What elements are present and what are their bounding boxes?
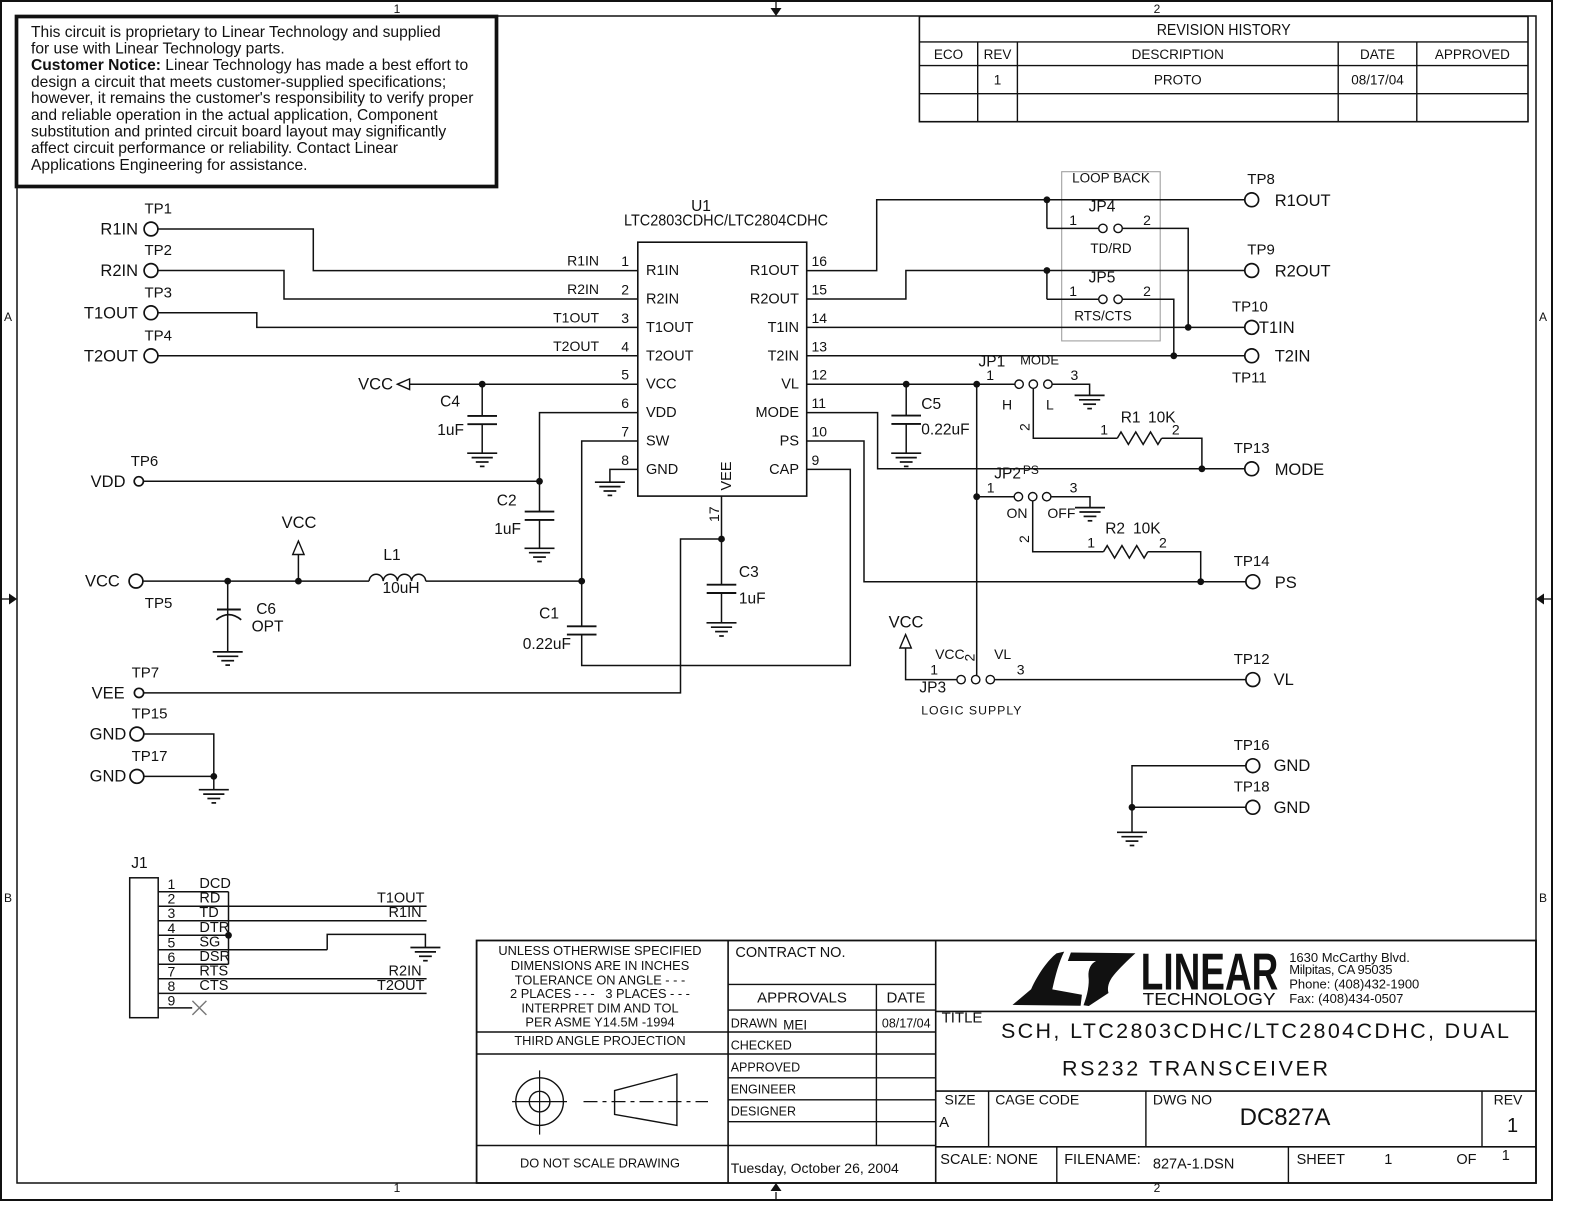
svg-text:DATE: DATE: [1360, 47, 1395, 62]
svg-text:OFF: OFF: [1047, 505, 1075, 521]
svg-text:H: H: [1002, 397, 1012, 413]
svg-text:DO NOT SCALE DRAWING: DO NOT SCALE DRAWING: [520, 1156, 680, 1171]
svg-text:1: 1: [1069, 212, 1077, 228]
svg-text:DIMENSIONS ARE IN INCHES: DIMENSIONS ARE IN INCHES: [511, 958, 689, 973]
svg-text:1: 1: [1069, 283, 1077, 299]
svg-text:1: 1: [1384, 1152, 1392, 1168]
svg-text:TP10: TP10: [1232, 299, 1268, 316]
svg-text:CHECKED: CHECKED: [731, 1039, 792, 1053]
svg-text:08/17/04: 08/17/04: [882, 1017, 931, 1031]
svg-text:PS: PS: [1023, 463, 1039, 477]
svg-text:DWG NO: DWG NO: [1153, 1091, 1212, 1107]
svg-text:SCALE:: SCALE:: [940, 1152, 992, 1168]
svg-text:2: 2: [961, 654, 977, 662]
svg-text:2: 2: [1172, 421, 1180, 437]
svg-text:INTERPRET DIM AND TOL: INTERPRET DIM AND TOL: [521, 1001, 678, 1016]
svg-text:08/17/04: 08/17/04: [1351, 73, 1404, 88]
svg-text:TP16: TP16: [1234, 737, 1270, 754]
svg-text:GND: GND: [90, 768, 127, 786]
svg-text:VL: VL: [994, 646, 1011, 662]
svg-text:ENGINEER: ENGINEER: [731, 1083, 796, 1097]
svg-text:1uF: 1uF: [437, 422, 464, 439]
svg-text:R1IN: R1IN: [389, 905, 422, 921]
svg-text:R2IN: R2IN: [567, 281, 599, 297]
svg-text:R2IN: R2IN: [646, 292, 679, 308]
svg-text:TP3: TP3: [145, 284, 173, 301]
svg-text:VCC: VCC: [646, 377, 677, 393]
svg-text:RTS: RTS: [199, 963, 228, 979]
svg-text:REVISION HISTORY: REVISION HISTORY: [1157, 22, 1291, 39]
svg-text:SCH, LTC2803CDHC/LTC2804CDHC,: SCH, LTC2803CDHC/LTC2804CDHC, DUAL: [1001, 1019, 1509, 1043]
svg-text:design a circuit that meets cu: design a circuit that meets customer-sup…: [31, 74, 446, 91]
svg-text:OF: OF: [1456, 1152, 1476, 1168]
svg-text:1: 1: [994, 73, 1002, 88]
svg-text:THIRD ANGLE PROJECTION: THIRD ANGLE PROJECTION: [514, 1033, 685, 1048]
svg-text:TITLE: TITLE: [942, 1010, 983, 1027]
svg-text:T2OUT: T2OUT: [646, 348, 694, 364]
svg-text:VEE: VEE: [92, 685, 125, 703]
svg-text:and reliable operation in the: and reliable operation in the actual app…: [31, 107, 438, 124]
svg-text:VL: VL: [781, 377, 799, 393]
svg-text:UNLESS OTHERWISE SPECIFIED: UNLESS OTHERWISE SPECIFIED: [498, 943, 701, 958]
svg-text:R2: R2: [1105, 521, 1125, 538]
svg-text:10K: 10K: [1133, 521, 1161, 538]
svg-text:T2OUT: T2OUT: [84, 347, 138, 365]
svg-text:VCC: VCC: [935, 646, 965, 662]
svg-text:A: A: [4, 310, 12, 324]
svg-text:1: 1: [1087, 535, 1095, 551]
svg-text:APPROVED: APPROVED: [731, 1061, 800, 1075]
svg-text:2: 2: [1143, 212, 1151, 228]
svg-text:Phone: (408)432-1900: Phone: (408)432-1900: [1289, 977, 1419, 992]
svg-text:CTS: CTS: [199, 978, 228, 994]
svg-text:A: A: [1539, 310, 1547, 324]
svg-text:R1IN: R1IN: [567, 253, 599, 269]
svg-text:NONE: NONE: [996, 1152, 1038, 1168]
svg-text:T1IN: T1IN: [768, 320, 799, 336]
svg-text:7: 7: [168, 963, 176, 979]
svg-text:T1IN: T1IN: [1259, 319, 1295, 337]
svg-text:TP8: TP8: [1247, 171, 1275, 188]
svg-text:1: 1: [1502, 1148, 1510, 1164]
svg-text:T2OUT: T2OUT: [553, 338, 599, 354]
svg-text:J1: J1: [131, 855, 147, 872]
svg-text:4: 4: [621, 338, 629, 354]
svg-text:VDD: VDD: [91, 473, 126, 491]
svg-text:14: 14: [812, 310, 828, 326]
svg-text:JP2: JP2: [994, 466, 1021, 483]
svg-text:2 PLACES - - - 3 PLACES - -: 2 PLACES - - - 3 PLACES - - -: [510, 986, 690, 1001]
svg-text:however, it remains the custom: however, it remains the customer's respo…: [31, 90, 473, 107]
svg-text:9: 9: [812, 452, 820, 468]
svg-text:DESIGNER: DESIGNER: [731, 1105, 796, 1119]
svg-text:PS: PS: [1275, 574, 1297, 592]
svg-text:1: 1: [621, 253, 629, 269]
svg-text:1: 1: [1507, 1115, 1518, 1137]
svg-text:TECHNOLOGY: TECHNOLOGY: [1143, 989, 1276, 1009]
svg-text:3: 3: [621, 310, 629, 326]
svg-text:CONTRACT NO.: CONTRACT NO.: [735, 945, 845, 961]
svg-text:REV: REV: [1494, 1091, 1523, 1107]
svg-text:VEE: VEE: [719, 461, 735, 490]
svg-text:2: 2: [1154, 2, 1161, 16]
svg-text:Fax: (408)434-0507: Fax: (408)434-0507: [1289, 991, 1403, 1006]
svg-text:9: 9: [168, 992, 176, 1008]
svg-text:Tuesday, October 26, 2004: Tuesday, October 26, 2004: [731, 1160, 899, 1176]
svg-text:VCC: VCC: [85, 573, 120, 591]
svg-text:MEI: MEI: [783, 1018, 807, 1033]
svg-text:7: 7: [621, 424, 629, 440]
svg-text:JP3: JP3: [919, 680, 946, 697]
svg-text:RTS/CTS: RTS/CTS: [1074, 309, 1132, 324]
svg-text:10: 10: [812, 424, 828, 440]
svg-text:3: 3: [168, 905, 176, 921]
svg-text:L: L: [1046, 397, 1054, 413]
svg-text:FILENAME:: FILENAME:: [1064, 1152, 1141, 1168]
svg-text:APPROVED: APPROVED: [1435, 47, 1510, 62]
svg-text:1: 1: [986, 367, 994, 383]
svg-text:R1OUT: R1OUT: [750, 263, 799, 279]
svg-text:VCC: VCC: [889, 614, 924, 632]
svg-text:RS232 TRANSCEIVER: RS232 TRANSCEIVER: [1062, 1056, 1328, 1080]
svg-text:TP11: TP11: [1232, 370, 1267, 387]
svg-text:R2OUT: R2OUT: [1275, 263, 1331, 281]
svg-text:C5: C5: [921, 396, 941, 413]
svg-text:C2: C2: [497, 493, 517, 510]
svg-text:2: 2: [1017, 423, 1033, 431]
svg-text:C3: C3: [739, 564, 759, 581]
svg-text:for use with Linear Technology: for use with Linear Technology parts.: [31, 40, 285, 57]
svg-text:TP15: TP15: [132, 706, 168, 723]
svg-text:APPROVALS: APPROVALS: [757, 990, 847, 1007]
svg-text:8: 8: [621, 452, 629, 468]
svg-text:1: 1: [987, 479, 995, 495]
svg-text:C4: C4: [440, 394, 460, 411]
svg-text:JP4: JP4: [1089, 199, 1116, 216]
svg-text:6: 6: [621, 395, 629, 411]
svg-text:PS: PS: [780, 434, 799, 450]
svg-text:VDD: VDD: [646, 405, 677, 421]
svg-text:SIZE: SIZE: [945, 1091, 976, 1107]
svg-text:0.22uF: 0.22uF: [523, 636, 571, 653]
svg-text:REV: REV: [984, 47, 1012, 62]
svg-text:2: 2: [621, 282, 629, 298]
svg-text:2: 2: [1016, 535, 1032, 543]
svg-text:TP12: TP12: [1234, 651, 1270, 668]
svg-text:12: 12: [812, 367, 828, 383]
svg-text:R1IN: R1IN: [646, 263, 679, 279]
svg-text:R1: R1: [1121, 409, 1141, 426]
svg-text:CAGE CODE: CAGE CODE: [995, 1091, 1079, 1107]
svg-text:3: 3: [1071, 367, 1079, 383]
svg-text:TP9: TP9: [1247, 242, 1275, 259]
svg-text:R2IN: R2IN: [389, 963, 422, 979]
svg-text:T1OUT: T1OUT: [646, 320, 694, 336]
svg-text:11: 11: [812, 395, 827, 411]
svg-text:R2IN: R2IN: [100, 262, 138, 280]
svg-text:B: B: [4, 891, 12, 905]
svg-text:1: 1: [394, 1181, 401, 1195]
svg-text:TP13: TP13: [1234, 440, 1270, 457]
svg-text:TP18: TP18: [1234, 779, 1270, 796]
svg-text:This circuit is proprietary to: This circuit is proprietary to Linear Te…: [31, 24, 441, 41]
svg-text:Customer Notice: Linear Techno: Customer Notice: Linear Technology has m…: [31, 57, 468, 74]
svg-text:10uH: 10uH: [382, 580, 419, 597]
svg-text:ECO: ECO: [934, 47, 963, 62]
svg-text:T2OUT: T2OUT: [377, 978, 425, 994]
svg-text:1uF: 1uF: [494, 521, 521, 538]
svg-text:LTC2803CDHC/LTC2804CDHC: LTC2803CDHC/LTC2804CDHC: [624, 213, 828, 230]
svg-text:3: 3: [1017, 661, 1025, 677]
svg-text:VL: VL: [1274, 671, 1294, 689]
svg-text:DESCRIPTION: DESCRIPTION: [1132, 47, 1224, 62]
svg-text:0.22uF: 0.22uF: [921, 421, 969, 438]
svg-text:DC827A: DC827A: [1240, 1104, 1331, 1131]
svg-text:DATE: DATE: [887, 990, 926, 1007]
svg-text:TD/RD: TD/RD: [1090, 241, 1131, 256]
svg-text:DRAWN: DRAWN: [731, 1017, 778, 1031]
svg-text:1: 1: [930, 661, 938, 677]
svg-text:TP14: TP14: [1234, 553, 1270, 570]
svg-text:PER ASME Y14.5M -1994: PER ASME Y14.5M -1994: [525, 1015, 674, 1030]
svg-text:L1: L1: [383, 547, 400, 564]
svg-text:R1OUT: R1OUT: [1275, 192, 1331, 210]
svg-text:TP17: TP17: [132, 748, 168, 765]
svg-text:TD: TD: [199, 905, 218, 921]
svg-text:3: 3: [1070, 479, 1078, 495]
svg-text:2: 2: [1159, 535, 1167, 551]
svg-text:LOGIC SUPPLY: LOGIC SUPPLY: [921, 703, 1022, 717]
svg-text:substitution and printed circu: substitution and printed circuit board l…: [31, 124, 446, 141]
svg-text:B: B: [1539, 891, 1547, 905]
svg-text:1: 1: [1100, 421, 1108, 437]
svg-text:PROTO: PROTO: [1154, 73, 1202, 88]
svg-text:SHEET: SHEET: [1297, 1152, 1345, 1168]
svg-text:TP2: TP2: [145, 242, 173, 259]
svg-text:17: 17: [706, 506, 722, 522]
svg-text:MODE: MODE: [1020, 353, 1059, 368]
svg-text:TP6: TP6: [131, 453, 159, 470]
svg-text:JP5: JP5: [1089, 270, 1116, 287]
svg-text:2: 2: [1143, 283, 1151, 299]
svg-text:T2IN: T2IN: [1275, 347, 1311, 365]
svg-text:Applications Engineering for a: Applications Engineering for assistance.: [31, 157, 308, 174]
svg-text:T2IN: T2IN: [768, 348, 799, 364]
svg-text:R1IN: R1IN: [100, 221, 138, 239]
svg-text:TP7: TP7: [132, 665, 160, 682]
svg-text:Milpitas, CA 95035: Milpitas, CA 95035: [1289, 962, 1392, 977]
svg-text:VCC: VCC: [282, 514, 317, 532]
svg-text:A: A: [939, 1114, 949, 1131]
svg-text:TP1: TP1: [145, 201, 173, 218]
svg-text:LOOP BACK: LOOP BACK: [1072, 170, 1150, 185]
svg-text:GND: GND: [646, 462, 678, 478]
svg-text:GND: GND: [1274, 757, 1311, 775]
svg-text:ON: ON: [1007, 505, 1028, 521]
svg-text:VCC: VCC: [358, 376, 393, 394]
svg-text:13: 13: [812, 338, 828, 354]
svg-text:R2OUT: R2OUT: [750, 292, 799, 308]
svg-text:1: 1: [394, 2, 401, 16]
svg-text:GND: GND: [1274, 799, 1311, 817]
svg-text:T1OUT: T1OUT: [84, 304, 138, 322]
svg-text:TP5: TP5: [145, 595, 173, 612]
svg-text:5: 5: [621, 367, 629, 383]
svg-text:T1OUT: T1OUT: [553, 309, 599, 325]
svg-text:16: 16: [812, 253, 828, 269]
svg-text:MODE: MODE: [1275, 461, 1325, 479]
svg-text:SW: SW: [646, 434, 670, 450]
svg-text:827A-1.DSN: 827A-1.DSN: [1153, 1156, 1234, 1172]
svg-text:OPT: OPT: [252, 619, 284, 636]
svg-text:GND: GND: [90, 725, 127, 743]
svg-text:1uF: 1uF: [739, 590, 766, 607]
svg-text:CAP: CAP: [769, 462, 799, 478]
svg-text:MODE: MODE: [756, 405, 800, 421]
svg-text:C1: C1: [539, 606, 559, 623]
svg-text:C6: C6: [256, 601, 276, 618]
svg-text:15: 15: [812, 282, 828, 298]
svg-text:TP4: TP4: [145, 327, 173, 344]
svg-text:affect circuit performance or: affect circuit performance or reliabilit…: [31, 140, 398, 157]
